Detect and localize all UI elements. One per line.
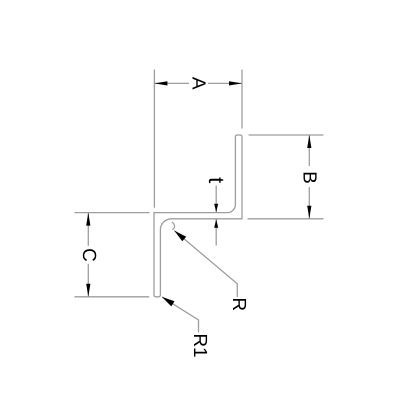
svg-text:A: A (188, 77, 209, 90)
radius R tick arc (172, 222, 175, 230)
dimension B arrowhead top (307, 135, 311, 148)
svg-text:C: C (78, 248, 99, 262)
radius R leader line (174, 231, 237, 297)
dimension B extension line top (249, 134, 324, 136)
svg-text:B: B (299, 171, 320, 184)
Z-profile outline (154, 135, 242, 297)
svg-text:R1: R1 (189, 333, 210, 357)
radius R arrowhead (174, 231, 186, 242)
dimension t lower arrowhead (214, 219, 218, 228)
dimension B arrowhead bottom (307, 206, 311, 219)
svg-text:t: t (204, 177, 229, 183)
dimension A arrowhead left (154, 81, 167, 85)
dimension B line top segment (308, 135, 310, 166)
dimension C line bottom segment (87, 264, 89, 297)
dimension C extension line top (75, 212, 150, 214)
dimension t lower arrow line (215, 219, 217, 245)
dimension C arrowhead bottom (86, 284, 90, 297)
dimension B line bottom segment (308, 187, 310, 219)
dimension A line left segment (154, 82, 189, 84)
dimension A arrowhead right (229, 81, 242, 85)
radius R1 leader line (162, 297, 199, 333)
svg-text:R: R (228, 297, 249, 311)
dimension A line right segment (208, 82, 242, 84)
dimension t upper arrowhead (214, 204, 218, 213)
radius R1 arrowhead (162, 297, 175, 307)
dimension C extension line bottom (75, 296, 150, 298)
dimension C line top segment (87, 213, 89, 246)
dimension C arrowhead top (86, 213, 90, 226)
dimension A extension line left (153, 70, 155, 208)
dimension B extension line bottom (248, 218, 324, 220)
dimension t upper arrow line (215, 186, 217, 213)
dimension A extension line right (241, 70, 243, 129)
